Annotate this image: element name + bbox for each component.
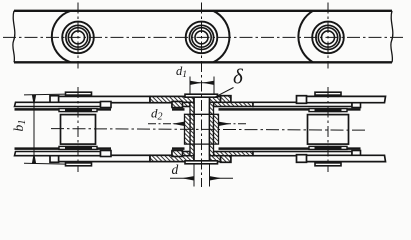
- b1 extension line top: [24, 93, 66, 96]
- outer plate 1-2 top, left end boss: [50, 96, 59, 104]
- inner plate 2-3 bottom, right segment hatched part: [214, 152, 254, 156]
- joint 3 bushing flange bottom: [309, 146, 347, 149]
- inner plate 2-3 bottom, left segment (hatched): [172, 152, 190, 156]
- d dimension arrow right: [210, 177, 233, 179]
- joint 1 pin head bottom: [66, 163, 92, 166]
- svg-text:δ: δ: [233, 65, 244, 89]
- plate bottom edge: [14, 61, 392, 63]
- joint 2 pin head bottom: [185, 161, 218, 164]
- inner plate 0-1 top: [15, 102, 101, 106]
- d extension line left: [193, 165, 195, 187]
- joint 1 pin head top: [66, 92, 92, 95]
- roller 3: [312, 22, 344, 54]
- d2 dimension arrow right: [219, 123, 246, 125]
- outer plate 3-4 bottom left end boss: [297, 155, 307, 163]
- link plate end arc left of roller 3: [298, 11, 313, 63]
- joint 2 roller top edge across: [190, 113, 214, 115]
- outer plate 1-2 top, left segment: [51, 96, 151, 102]
- joint 1 centerline: [77, 87, 79, 172]
- joint 1 bushing flange bottom: [59, 146, 97, 149]
- inner plate 2-3 top, right segment hatched part: [214, 102, 254, 106]
- joint 3 centerline: [327, 87, 329, 172]
- joint 2 roller wall right (hatched): [214, 114, 219, 144]
- joint 3 bushing flange top dark core: [315, 109, 341, 112]
- roller 3 centerline: [327, 3, 329, 69]
- outer plate 3-4 bottom: [297, 155, 386, 161]
- joint 1 bushing flange top: [59, 109, 97, 112]
- roller 2 / joint 2 common centerline: [201, 3, 203, 188]
- outer plate 3-4 top: [297, 96, 386, 102]
- joint 2 pin head top: [185, 94, 218, 97]
- joint 1 bushing flange bottom dark core: [66, 146, 92, 149]
- joint 3 bushing flange top: [309, 109, 347, 112]
- joint 2 roller bottom edge across: [190, 143, 214, 145]
- joint 3 roller outline: [308, 115, 349, 145]
- d dimension arrow left: [170, 177, 194, 179]
- right break line: [391, 11, 393, 63]
- b1 dimension line: [33, 95, 35, 164]
- link plate end arc right of roller 2: [213, 11, 229, 63]
- joint 2 bushing wall left (hatched): [190, 102, 194, 155]
- joint 2 pin body: [194, 96, 210, 162]
- link plate end arc left of roller 1: [52, 11, 71, 63]
- delta leader line: [215, 88, 234, 98]
- inner link 0-1 waist profile line bottom: [15, 147, 61, 150]
- inner plate 0-1 top end boss: [101, 102, 112, 108]
- inner link 0-1 waist profile line top: [15, 108, 61, 111]
- roller 2: [186, 22, 218, 54]
- joint 3 pin head bottom: [315, 163, 341, 166]
- outer plate 1-2 top, right end boss: [221, 96, 231, 104]
- inner plate 2-3 top, left segment (hatched): [172, 102, 190, 106]
- outer plate 1-2 bottom, right segment (hatched): [210, 155, 231, 161]
- plate top edge: [14, 10, 392, 12]
- inner plate 2-3 bottom, left end boss: [172, 151, 183, 157]
- d1 dimension line with outward arrows: [190, 82, 214, 84]
- joint 3 pin head top: [315, 92, 341, 95]
- d2 dimension arrow left: [148, 123, 184, 125]
- left break line: [13, 11, 15, 63]
- outer plate 3-4 top left end boss: [297, 96, 307, 104]
- joint 1 bushing flange top dark core: [66, 109, 92, 112]
- svg-text:d: d: [172, 162, 179, 177]
- inner plate 2-3 bottom, right segment: [253, 152, 352, 156]
- inner link 2-3 waist profile line top: [172, 108, 185, 111]
- inner plate 2-3 top, left end boss: [172, 102, 183, 108]
- inner plate 0-1 bottom end boss: [101, 151, 112, 157]
- outer plate 1-2 bottom, mid hatched part: [150, 155, 194, 161]
- inner plate 2-3 top, right end boss: [352, 102, 361, 108]
- outer plate 1-2 top, right segment (hatched): [210, 96, 231, 102]
- centerlines over components: [51, 3, 368, 188]
- section axis centerline: [51, 129, 368, 131]
- d extension line right: [209, 165, 211, 187]
- inner plate 2-3 top, right segment: [253, 102, 352, 106]
- joint 1 roller outline: [61, 115, 96, 145]
- d1 extension line right: [213, 77, 215, 95]
- inner plate 0-1 bottom: [15, 152, 101, 156]
- chain axis centerline (top view): [3, 36, 403, 38]
- outer plate 1-2 bottom, left end boss: [50, 155, 59, 163]
- outer plate 1-2 bottom, right end boss: [221, 155, 231, 163]
- inner plate 2-3 bottom, right end boss: [352, 151, 361, 157]
- outer plate 1-2 bottom, left segment: [51, 155, 151, 161]
- roller 1: [62, 22, 94, 54]
- joint 3 bushing flange bottom dark core: [315, 146, 341, 149]
- joint 2 roller wall left (hatched): [185, 114, 191, 144]
- inner link 2-3 waist profile line bottom: [172, 147, 185, 150]
- roller 1 centerline: [77, 3, 79, 69]
- joint 2 bushing wall right (hatched): [210, 102, 214, 155]
- d1 extension line left: [189, 77, 191, 95]
- outer plate 1-2 top, mid hatched part: [150, 96, 194, 102]
- b1 extension line bottom: [24, 162, 66, 165]
